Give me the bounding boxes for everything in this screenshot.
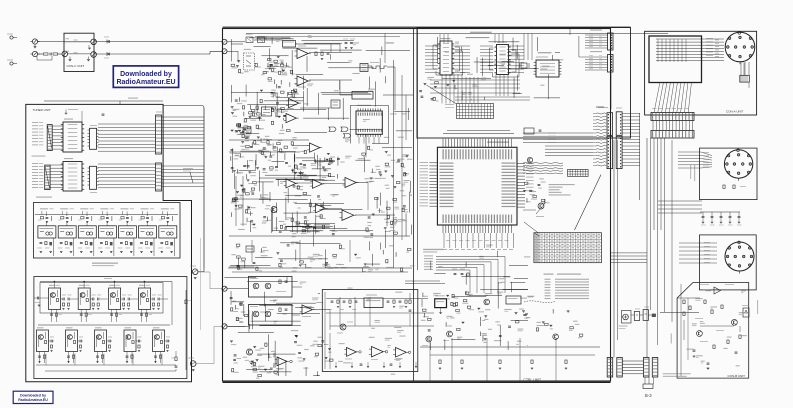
- wire: [49, 340, 51, 342]
- CON-B caps: [707, 362, 710, 364]
- tuner pin labels: [32, 121, 38, 124]
- inter-stage parts: [152, 298, 154, 301]
- svg-text:CTRL UNIT: CTRL UNIT: [524, 378, 542, 382]
- connector out wires: [622, 113, 640, 115]
- RC cluster mid5: [370, 233, 373, 235]
- tuner top parts: [65, 112, 68, 114]
- decoupling pair: [110, 313, 113, 315]
- register label: [32, 156, 46, 157]
- capacitor C1: [49, 53, 51, 56]
- resistor pack RP1: [740, 75, 750, 82]
- op-amp IC8b: [286, 179, 296, 188]
- shield box: [649, 36, 702, 83]
- wire to control unit: [95, 41, 223, 43]
- svg-text:Downloaded by: Downloaded by: [120, 71, 172, 78]
- op-amp IC5a: [297, 49, 308, 59]
- connector drop stubs: [644, 377, 646, 384]
- wire: [38, 41, 64, 43]
- speaker wires: [631, 314, 634, 316]
- IC4 decoder: [90, 166, 97, 189]
- bias parts2: [38, 355, 41, 357]
- inter-stage parts: [122, 298, 124, 301]
- ceramic filter CF1: [283, 41, 296, 48]
- op-amp IC9c: [342, 210, 354, 220]
- acc connector box: [700, 148, 758, 200]
- svg-text:CON-A UNIT: CON-A UNIT: [726, 110, 744, 114]
- transistor Q16: [484, 299, 490, 305]
- RC cluster mid4: [240, 184, 243, 186]
- link wire: [196, 326, 221, 363]
- wires top area: [309, 52, 352, 54]
- op-amp IC11: [277, 357, 287, 366]
- ribbon wires: [585, 34, 608, 36]
- transistor Q14: [426, 336, 432, 342]
- CON-B interior amp: [714, 287, 721, 294]
- diode matrix D1: [457, 104, 494, 119]
- note text: [663, 373, 691, 374]
- inter-unit wires: [622, 360, 643, 362]
- audio right column: [409, 300, 411, 303]
- output coupling: [175, 357, 177, 361]
- wire: [38, 53, 43, 55]
- connector pin P4: [91, 39, 97, 45]
- svg-text:CON-B UNIT: CON-B UNIT: [728, 374, 746, 378]
- RF coil L2: [258, 37, 265, 43]
- wire: [58, 53, 63, 55]
- decoupling pair: [80, 313, 83, 315]
- IF amp stage Q8: [124, 330, 136, 352]
- capacitor group: [345, 42, 348, 44]
- phono jack P2: [32, 51, 37, 56]
- connector pins link: [652, 121, 654, 131]
- resistor R1: [44, 53, 49, 55]
- transistor Q17: [553, 334, 559, 340]
- op-amp IC9b: [316, 204, 326, 213]
- wire: [44, 100, 163, 102]
- op-amp IC10: [302, 305, 312, 314]
- resistor array RA1: [47, 125, 52, 151]
- wires mid: [229, 139, 309, 141]
- fan to edge: [654, 82, 660, 113]
- replacement note text: [549, 184, 575, 185]
- ribbon wires right: [523, 132, 593, 134]
- logic verticals: [439, 34, 441, 43]
- AF out connector: [190, 361, 196, 367]
- inter-stage parts2: [138, 340, 140, 343]
- bias parts2: [154, 355, 157, 357]
- label noise lower: [257, 355, 262, 356]
- top edge double line: [223, 26, 631, 28]
- edge connector J31: [651, 113, 694, 121]
- mic jack J5: [222, 286, 227, 291]
- mic amp parts: [238, 318, 243, 319]
- fan wires CN2: [678, 151, 701, 153]
- cable marker: [106, 52, 108, 56]
- audio mid bus: [330, 325, 434, 327]
- volume pot VR1: [246, 246, 254, 252]
- IF amp stage Q2: [78, 288, 90, 310]
- signal fan-out: [424, 255, 433, 256]
- svg-text:RadioAmateur.EU: RadioAmateur.EU: [18, 398, 48, 402]
- BFO coil T2: [331, 100, 340, 108]
- wire: [203, 268, 205, 272]
- IC7 IF system: [356, 111, 382, 134]
- wire mesh logic: [489, 41, 520, 43]
- IF amp stage Q3: [109, 288, 121, 310]
- resistor array RA2: [45, 165, 50, 190]
- tuner unit outer box: [26, 104, 192, 381]
- wire mesh mid analog: [292, 145, 307, 147]
- ceramic filter FI-6: [141, 208, 149, 209]
- table callout: [524, 222, 538, 233]
- inter-stage parts: [92, 298, 94, 301]
- CON-A labels: [652, 107, 657, 110]
- transistor Q11: [247, 349, 253, 355]
- wire: [136, 340, 138, 342]
- IF amp stage Q5: [37, 330, 49, 352]
- tuner wires: [98, 123, 155, 125]
- microcontroller pins right: [517, 163, 525, 165]
- wire: [61, 298, 63, 300]
- bus wires lower: [228, 267, 412, 269]
- audio bottom parts: [335, 362, 337, 366]
- drop wires2: [126, 352, 128, 364]
- connector J24a: [616, 112, 622, 136]
- RC cluster bottom-left2: [303, 358, 306, 360]
- bottom wires: [420, 346, 600, 348]
- ground: [88, 45, 90, 48]
- bias divider: [53, 282, 55, 289]
- wire: [296, 43, 341, 45]
- bus wire: [203, 108, 205, 268]
- ceramic filter FI-7: [161, 208, 169, 209]
- RC cluster mid1: [246, 133, 251, 134]
- op-amp IC5d: [286, 114, 296, 123]
- CON-A unit box: [645, 31, 757, 115]
- row1 inner box: [40, 283, 163, 314]
- input jack J4: [222, 49, 227, 54]
- IC1 AM tuner: [63, 122, 82, 152]
- IC13 shift register: [440, 41, 452, 75]
- label rows: [548, 132, 556, 135]
- wire: [106, 212, 108, 217]
- svg-text:B-3: B-3: [645, 393, 652, 398]
- RC row lower: [333, 254, 337, 256]
- bottom resistor row: [439, 360, 441, 363]
- microcontroller IC16: [437, 147, 517, 225]
- wire: [167, 212, 169, 217]
- bus wire: [40, 281, 172, 283]
- logic unit box: [417, 28, 631, 139]
- inner partition: [413, 29, 415, 382]
- mixer IC6: [352, 92, 373, 100]
- IC13 wire loops: [433, 45, 437, 69]
- right bus vertical: [639, 113, 641, 200]
- logic wires left IC: [425, 45, 438, 47]
- wire mesh lower analog: [276, 302, 316, 304]
- ribbon coil wires: [596, 113, 606, 114]
- inter-stage parts2: [166, 340, 168, 343]
- bias parts2: [67, 355, 70, 357]
- pin labels CN2: [703, 151, 709, 154]
- drop wires2: [68, 352, 70, 364]
- jack box J34: [643, 310, 648, 321]
- wire: [66, 212, 68, 217]
- RF switch module M2: [249, 305, 293, 326]
- diode D3: [743, 308, 749, 317]
- mcu right outside labels: [526, 163, 534, 164]
- IC14 shift register: [497, 45, 509, 75]
- CON-B unit box: [677, 283, 749, 379]
- connector J23b: [607, 136, 613, 168]
- link wires: [204, 267, 223, 269]
- microcontroller pins top: [442, 139, 444, 148]
- connector J28: [617, 358, 623, 378]
- mic connector box: [700, 235, 757, 290]
- audio bus: [326, 312, 434, 314]
- svg-text:TUNER UNIT: TUNER UNIT: [33, 108, 51, 112]
- RC cluster bottom-left: [250, 362, 253, 364]
- IC7 pin drops: [358, 137, 360, 144]
- reset circuit: [524, 128, 534, 134]
- inter-stage parts2: [50, 340, 52, 343]
- IF transformer T1: [360, 64, 368, 72]
- op-amp IC18c: [396, 348, 407, 358]
- decoupling caps row: [700, 211, 740, 213]
- junction block: [652, 314, 656, 317]
- audio IC17: [364, 298, 383, 308]
- RF coil L1: [246, 37, 253, 43]
- squelch pot: [243, 127, 251, 133]
- wire: [743, 63, 745, 76]
- op-amp IC5c: [289, 99, 299, 108]
- callout line: [427, 85, 457, 104]
- bus wire: [246, 33, 668, 35]
- connector J23a: [607, 113, 613, 136]
- signal label block: [423, 249, 443, 250]
- connector J29: [644, 358, 650, 378]
- key jack J6: [222, 324, 227, 329]
- det coil T3: [262, 107, 272, 116]
- dense mesh extra: [257, 181, 273, 183]
- bus junction: [569, 29, 571, 36]
- bias divider: [143, 282, 145, 289]
- pin labels CN1: [706, 37, 713, 40]
- antenna jack J1: [10, 36, 13, 39]
- spare vertical: [200, 238, 202, 330]
- DIN connector CN3: [725, 242, 754, 271]
- drop wires2: [155, 352, 157, 364]
- drop wires: [51, 310, 53, 323]
- note text block: [544, 274, 554, 275]
- IF amp stage Q1: [49, 288, 61, 310]
- RC cluster 3: [243, 112, 245, 117]
- speaker part SP1: [622, 311, 632, 324]
- CON-B wires: [660, 312, 699, 314]
- CON-B labels: [695, 317, 703, 320]
- dense row cluster B: [242, 130, 245, 132]
- svg-text:Downloaded by: Downloaded by: [20, 393, 46, 397]
- op-amp IC8a: [310, 143, 320, 152]
- svg-text:CON-C UNIT: CON-C UNIT: [67, 64, 85, 68]
- IC15 EEPROM: [536, 60, 559, 77]
- op-amp IC5b: [297, 76, 308, 86]
- label noise bottom center: [494, 340, 501, 341]
- watermark box small: [13, 391, 53, 403]
- input jack J3: [222, 39, 227, 44]
- electret mic label: [183, 168, 193, 169]
- drop wires: [141, 310, 143, 323]
- wire mesh upper analog: [247, 103, 297, 105]
- ceramic filter FI-4: [100, 208, 108, 209]
- wire: [246, 33, 417, 35]
- crystal X1: [521, 63, 527, 68]
- drop wires: [111, 310, 113, 323]
- buffer box: [506, 296, 521, 304]
- crossing wires: [405, 280, 440, 282]
- connector J11: [156, 115, 162, 154]
- IC7 wire loop: [350, 105, 388, 143]
- drop wires: [80, 310, 82, 323]
- connector J30: [652, 358, 658, 378]
- wire: [121, 298, 123, 300]
- logic gate G3: [344, 134, 351, 139]
- inter-stage parts2: [108, 340, 110, 343]
- IF amp stage Q6: [66, 330, 78, 352]
- ribbon connector J22: [608, 55, 614, 73]
- drop wires2: [39, 352, 41, 364]
- supply label: [36, 197, 52, 198]
- CN2 lower parts: [723, 185, 725, 188]
- ground: [69, 57, 71, 60]
- ground: [34, 44, 36, 46]
- RC cluster input: [239, 69, 241, 72]
- RC cluster mid6: [306, 223, 309, 225]
- CON-B vertical rails: [680, 284, 682, 376]
- crystal oscillator X2: [435, 299, 447, 308]
- bus wire 2: [255, 35, 400, 37]
- rotated label2: [671, 334, 672, 344]
- stack link wires: [578, 36, 580, 57]
- label noise logic: [540, 69, 547, 70]
- decoupling pair: [140, 313, 143, 315]
- pin labels: [66, 38, 70, 39]
- pin ticks CN1: [715, 39, 719, 42]
- audio out parts: [387, 300, 390, 302]
- dashed link: [524, 301, 556, 303]
- wire: [126, 212, 128, 217]
- bottom-center cluster: [445, 322, 447, 327]
- RF switch module M1: [249, 277, 293, 298]
- bias divider: [83, 282, 85, 289]
- bias divider: [114, 282, 116, 289]
- RC cluster mid3: [400, 190, 405, 191]
- IC14 wire loops: [490, 48, 494, 70]
- connector J12: [156, 163, 162, 191]
- transistor Q12: [527, 157, 532, 162]
- resistor R2: [53, 53, 58, 55]
- op-amp IC18b: [372, 347, 384, 357]
- inter-stage parts2: [79, 340, 81, 343]
- wire to control unit: [95, 53, 210, 55]
- antenna jack J2: [10, 62, 13, 65]
- rotated label: [694, 165, 695, 181]
- ribbon connector J21: [608, 33, 614, 50]
- connector J24b: [616, 136, 622, 168]
- connector pin P5: [91, 52, 97, 58]
- DIN connector CN1: [725, 32, 755, 62]
- filter bank box: [33, 203, 180, 259]
- supply rail: [171, 282, 173, 326]
- ceramic filter FI-1: [40, 208, 48, 209]
- transistor Q20: [340, 324, 346, 330]
- inner wires: [68, 53, 91, 55]
- wire: [107, 340, 109, 342]
- ribbon labels: [596, 107, 604, 108]
- IF out connector: [192, 269, 198, 275]
- resistor network: [315, 52, 317, 55]
- watermark box: [113, 66, 178, 88]
- audio input parts: [331, 300, 334, 302]
- op-amp IC18a: [347, 348, 357, 357]
- CON-B interior labels: [723, 348, 727, 349]
- mid verticals: [339, 297, 341, 326]
- logic cluster: [452, 79, 455, 81]
- mcu left labels: [420, 162, 429, 163]
- ceramic filter FI-5: [120, 208, 128, 209]
- first stage input: [37, 297, 39, 300]
- bottom-center cluster2: [480, 331, 482, 336]
- jack box J33: [634, 312, 639, 321]
- ground: [87, 57, 89, 60]
- filter bus wire: [35, 214, 178, 216]
- bottom-center cluster3: [579, 334, 583, 336]
- bottom edge thick: [223, 381, 611, 383]
- pin labels CN3: [704, 241, 710, 244]
- op-amp IC8c: [313, 180, 323, 189]
- wire: [165, 340, 167, 342]
- decoupling pair: [50, 313, 53, 315]
- fan wires CN1: [656, 38, 702, 40]
- wire: [86, 212, 88, 217]
- mcu bottom labels: [443, 249, 447, 250]
- wire: [78, 340, 80, 342]
- CON-C unit box: [64, 33, 94, 71]
- wire loop: [37, 56, 52, 60]
- row divider bus: [38, 324, 170, 326]
- wire: [523, 209, 536, 211]
- connector pin P3: [62, 51, 68, 57]
- transistor Q19: [732, 319, 738, 325]
- ceramic filter FI-2: [60, 208, 68, 209]
- wire: [146, 212, 148, 217]
- ribbon bundle A: [523, 162, 563, 165]
- bottom bus wires: [36, 364, 176, 366]
- ceramic filter FI-3: [80, 208, 88, 209]
- wire: [46, 212, 48, 217]
- mcu right cluster: [532, 191, 537, 192]
- wire: [151, 298, 153, 300]
- IF amp stage Q7: [95, 330, 107, 352]
- caps row top: [454, 273, 457, 275]
- mcu top bus: [443, 133, 514, 135]
- right rail: [185, 290, 187, 370]
- bus bend wires: [611, 252, 648, 254]
- transistor Q15: [447, 331, 453, 337]
- microcontroller pins bottom: [442, 225, 444, 233]
- label noise analog: [240, 224, 246, 225]
- audio sub-box: [322, 290, 418, 372]
